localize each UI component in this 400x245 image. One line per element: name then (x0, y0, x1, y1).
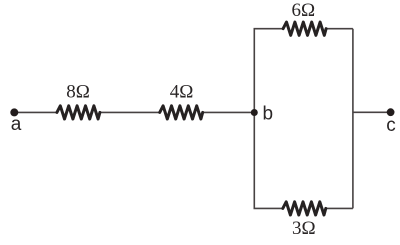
wire R3 to bottom-right corner (325, 207, 353, 209)
wire junction to c (353, 111, 391, 113)
wire bottom-left to R3 (254, 207, 284, 209)
svg-text:3Ω: 3Ω (292, 218, 316, 239)
wire a to R8 (14, 111, 57, 113)
node a terminal dot (10, 108, 18, 116)
wire right vertical branch (352, 29, 354, 209)
svg-text:a: a (11, 114, 22, 135)
node c terminal dot (387, 108, 395, 116)
svg-text:6Ω: 6Ω (291, 0, 315, 21)
svg-text:c: c (386, 115, 396, 136)
svg-text:8Ω: 8Ω (66, 82, 90, 103)
resistor R1 8Ω (57, 106, 100, 119)
svg-text:b: b (263, 104, 274, 125)
resistor R4 3Ω (283, 202, 326, 215)
node b junction dot (251, 109, 258, 116)
wire top-left to R6 (254, 28, 284, 30)
resistor R3 6Ω (283, 22, 326, 35)
wire R6 to top-right corner (325, 28, 353, 30)
wire R8 to R4 (99, 111, 161, 113)
wire R4 to node b (202, 111, 254, 113)
resistor R2 4Ω (160, 106, 203, 119)
wire left vertical branch through b (253, 29, 255, 209)
svg-text:4Ω: 4Ω (170, 82, 194, 103)
